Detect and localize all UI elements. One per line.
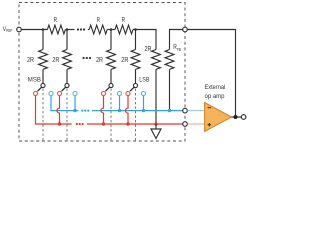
- switch S2 lever: [62, 87, 66, 91]
- switch S3 pole: [109, 83, 113, 87]
- terminal VOUT pin: [241, 115, 246, 120]
- junction red bit 2: [58, 122, 61, 125]
- wire red contact bit 4 with hop: [126, 96, 129, 124]
- switch S4 pole: [133, 83, 137, 87]
- resistor 2R bit 1 (MSB): [39, 30, 48, 84]
- ground: [151, 124, 161, 139]
- wire feedback to RFB: [188, 30, 236, 118]
- svg-text:REF: REF: [6, 28, 13, 33]
- wire red contact bit 3 with hop: [101, 96, 104, 124]
- switch S4 blue contact: [141, 91, 145, 95]
- wire blue contact bit 4: [143, 96, 145, 111]
- resistor 2R bit 2: [63, 30, 72, 84]
- rail continuation dots: [77, 28, 85, 30]
- switch S2 pole: [65, 83, 69, 87]
- node 3 junction: [110, 28, 113, 31]
- svg-text:R: R: [54, 17, 57, 24]
- node 2 junction: [66, 28, 69, 31]
- wire red contact bit 2 with hop: [57, 96, 59, 124]
- wire IOUT1 to op amp inverting input: [188, 110, 205, 112]
- svg-text:External: External: [205, 84, 226, 91]
- wire AGND to op amp noninverting input: [188, 123, 205, 125]
- wire to resistor R (2): [88, 29, 89, 31]
- red bus AGND: [36, 96, 183, 124]
- svg-text:R: R: [122, 17, 125, 24]
- junction terminator to ground: [154, 122, 157, 125]
- op-amp noninverting input mark: [208, 123, 211, 126]
- junction red bit 3: [102, 122, 105, 125]
- wire VREF to node 1: [22, 29, 48, 31]
- junction blue bit 3: [118, 109, 121, 112]
- junction blue bit 4: [142, 109, 145, 112]
- switch S2 red contact: [57, 91, 61, 95]
- svg-text:2R: 2R: [27, 57, 34, 64]
- svg-text:2R: 2R: [121, 57, 128, 64]
- switch S2 control dashed line: [66, 89, 68, 142]
- switch S1 control dashed line: [42, 89, 44, 142]
- blue bus IOUT1: [51, 96, 183, 111]
- svg-text:FB: FB: [177, 47, 181, 52]
- switch S3 lever: [106, 87, 110, 91]
- svg-text:LSB: LSB: [139, 76, 149, 83]
- 2R column continuation dots: [83, 57, 92, 59]
- terminal RFB pin: [183, 27, 188, 32]
- wire node 2 stub: [66, 29, 75, 31]
- svg-text:2R: 2R: [96, 57, 103, 64]
- svg-text:R: R: [97, 17, 100, 24]
- resistor R (3): [115, 25, 133, 34]
- switch S1 pole: [41, 83, 45, 87]
- wire blue contact bit 2: [74, 96, 76, 111]
- node 4 junction: [134, 28, 137, 31]
- wire node 4 to ladder terminator: [133, 30, 156, 50]
- junction blue bit 2: [73, 109, 76, 112]
- wire node 3: [107, 29, 115, 31]
- terminal VREF pin: [17, 27, 22, 32]
- terminal AGND pin: [183, 122, 188, 127]
- switch S1 blue contact: [49, 91, 53, 95]
- svg-text:op amp: op amp: [205, 93, 225, 100]
- switch S3 red contact: [101, 91, 105, 95]
- svg-text:2R: 2R: [52, 57, 59, 64]
- svg-text:MSB: MSB: [28, 76, 41, 83]
- switch S3 blue contact: [117, 91, 121, 95]
- switch S4 control dashed line: [135, 89, 137, 142]
- red bus continuation dots: [76, 123, 84, 125]
- junction output node: [234, 115, 238, 119]
- switch S4 red contact: [126, 91, 130, 95]
- switch S3 control dashed line: [110, 89, 112, 142]
- resistor 2R ladder terminator: [152, 50, 161, 125]
- switch S2 blue contact: [73, 91, 77, 95]
- op-amp U1 external: [205, 103, 232, 132]
- resistor R (1): [47, 25, 65, 34]
- svg-text:2R: 2R: [145, 46, 152, 53]
- junction red bit 4: [126, 122, 129, 125]
- blue bus continuation dots: [81, 110, 89, 112]
- wire op amp output: [232, 116, 241, 118]
- DAC package dashed boundary: [19, 3, 185, 142]
- terminal IOUT1 pin: [183, 108, 188, 113]
- op-amp inverting input mark: [208, 107, 211, 109]
- switch S1 red contact: [33, 91, 37, 95]
- resistor RFB: [165, 30, 182, 111]
- switch S4 lever: [130, 87, 134, 91]
- resistor R (2): [89, 25, 107, 34]
- resistor 2R bit 4 (LSB): [131, 30, 140, 84]
- switch S1 lever: [38, 87, 42, 91]
- junction RFB bottom: [168, 109, 171, 112]
- wire blue contact bit 3: [119, 96, 121, 111]
- resistor 2R bit 3: [107, 30, 116, 84]
- node 1 junction: [42, 28, 45, 31]
